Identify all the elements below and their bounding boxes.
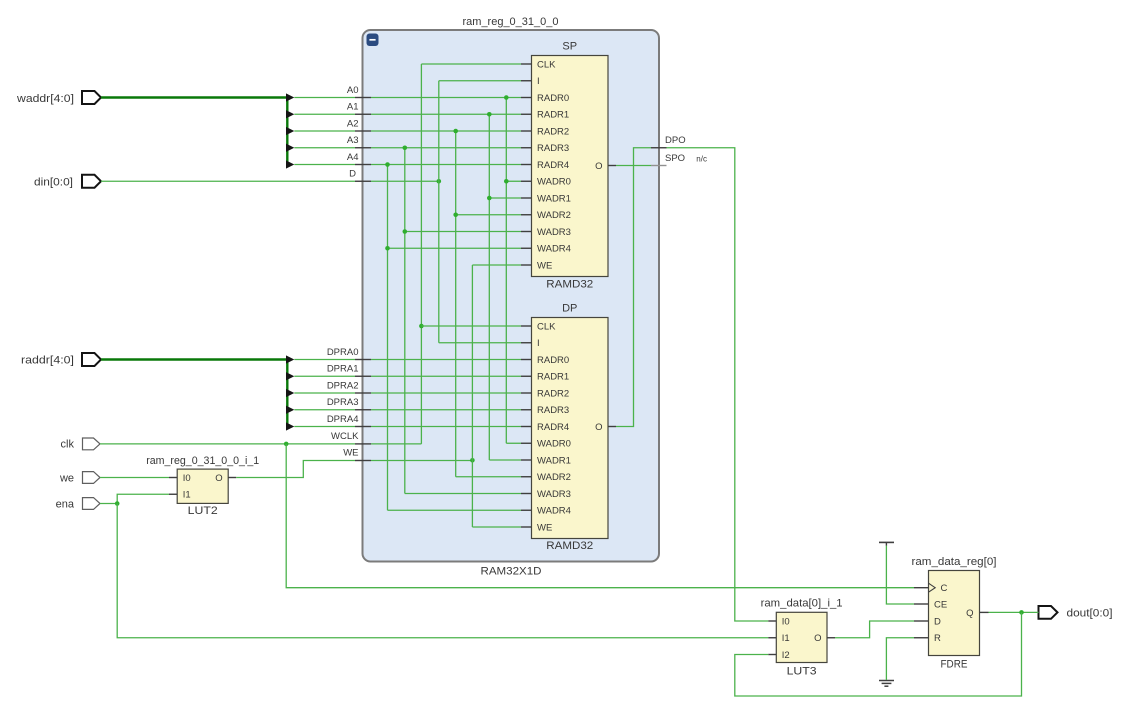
- DP pin RADR2 stub: [521, 392, 532, 394]
- wire Q to dout port: [989, 611, 1039, 613]
- SP pin O stub: [608, 165, 616, 167]
- svg-text:din[0:0]: din[0:0]: [34, 176, 73, 188]
- net A3 horizontal into RADR3: [371, 147, 521, 149]
- svg-text:D: D: [934, 616, 941, 627]
- pin label SPO: [665, 153, 685, 164]
- raddr bit DPRA4 arrowhead: [286, 422, 294, 430]
- svg-text:I0: I0: [183, 473, 191, 484]
- net D to SP I: [439, 80, 521, 82]
- svg-text:WADR3: WADR3: [537, 227, 571, 238]
- svg-text:WADR0: WADR0: [537, 439, 571, 450]
- input port din[0:0]: [34, 175, 101, 189]
- pin DPRA2 stub: [355, 392, 371, 394]
- SP pin RADR3 label: [537, 143, 569, 154]
- svg-text:WE: WE: [537, 260, 552, 271]
- wire LUT3 O to FDRE D: [835, 621, 914, 638]
- wire din[0:0] to container D pin: [101, 180, 355, 182]
- svg-text:I1: I1: [782, 633, 790, 644]
- pin label WE (container): [343, 448, 358, 459]
- bus raddr[4:0] trunk: [101, 360, 287, 427]
- junction A0 at SP RADR0: [504, 95, 509, 100]
- pin label DPRA2: [327, 380, 359, 391]
- DP pin WADR1 stub: [521, 459, 532, 461]
- pin A4 stub: [355, 164, 371, 166]
- LUT3 pin I1 stub: [768, 637, 776, 639]
- pin label D: [349, 169, 356, 180]
- svg-text:RADR1: RADR1: [537, 372, 569, 383]
- FDRE pin C label: [941, 583, 948, 594]
- SP pin RADR1 stub: [521, 113, 532, 115]
- net D vertical rail: [438, 81, 440, 343]
- junction A2 at SP WADR2: [453, 212, 458, 217]
- SP pin I label: [537, 76, 540, 87]
- input port raddr[4:0]: [21, 353, 101, 367]
- junction A0 at SP WADR0: [504, 179, 509, 184]
- junction A3 at SP WADR3: [403, 229, 408, 234]
- wire A2 to container: [294, 130, 355, 132]
- net A3 vertical rail: [404, 148, 406, 494]
- wire ena down to LUT3 I1: [117, 504, 768, 638]
- LUT3 pin O stub: [827, 637, 835, 639]
- LUT3 pin I0 label: [782, 616, 790, 627]
- SP pin WADR4 label: [537, 244, 571, 255]
- net D to DP I: [439, 342, 521, 344]
- LUT3 pin I2 label: [782, 650, 790, 661]
- svg-text:RADR2: RADR2: [537, 388, 569, 399]
- SP pin WADR4 stub: [521, 247, 532, 249]
- junction WCLK at DP CLK: [419, 324, 424, 329]
- DP pin CLK label: [537, 321, 556, 332]
- waddr bit A2 arrowhead: [286, 127, 294, 135]
- net A0 to DP WADR0: [506, 442, 521, 444]
- net A0 vertical rail: [505, 98, 507, 444]
- wire DPRA0 to container: [294, 359, 355, 361]
- DP pin RADR2 label: [537, 388, 569, 399]
- junction A3 at SP RADR3: [403, 145, 408, 150]
- SP pin RADR2 stub: [521, 130, 532, 132]
- net A4 horizontal into RADR4: [371, 164, 521, 166]
- LUT3 pin I2 stub: [768, 654, 776, 656]
- pin label DPRA3: [327, 397, 359, 408]
- svg-text:WE: WE: [537, 522, 552, 533]
- FDRE pin R label: [934, 633, 941, 644]
- net DPRA1 to DP RADR1: [371, 375, 521, 377]
- svg-text:D: D: [349, 169, 356, 180]
- pin label A1: [347, 102, 359, 113]
- junction A4 at SP RADR4: [385, 162, 390, 167]
- wire we to LUT2 I0: [100, 477, 169, 479]
- net WCLK to DP CLK: [421, 325, 521, 327]
- svg-text:WADR1: WADR1: [537, 455, 571, 466]
- wire A1 to container: [294, 113, 355, 115]
- net A4 vertical rail: [387, 165, 389, 511]
- junction Q: [1019, 610, 1024, 615]
- wire A3 to container: [294, 147, 355, 149]
- SP pin WADR2 label: [537, 210, 571, 221]
- svg-text:ram_reg_0_31_0_0: ram_reg_0_31_0_0: [463, 16, 559, 28]
- net A0 to SP WADR0: [506, 180, 521, 182]
- wire clk down to FDRE C: [286, 444, 914, 588]
- DP pin WADR4 label: [537, 506, 571, 517]
- net A3 to DP WADR3: [405, 493, 521, 495]
- raddr bit DPRA0 arrowhead: [286, 355, 294, 363]
- LUT3 type label: [787, 666, 817, 678]
- svg-text:RAM32X1D: RAM32X1D: [481, 566, 542, 578]
- svg-text:DPRA3: DPRA3: [327, 397, 359, 408]
- DP pin WE stub: [521, 526, 532, 528]
- net A4 to SP WADR4: [388, 247, 522, 249]
- pin label A3: [347, 135, 359, 146]
- svg-text:RADR0: RADR0: [537, 93, 569, 104]
- container title ram_reg_0_31_0_0: [463, 16, 559, 28]
- svg-text:O: O: [215, 473, 222, 484]
- wire A0 to container: [294, 97, 355, 99]
- SP pin WADR1 label: [537, 193, 571, 204]
- pin DPRA4 stub: [355, 426, 371, 428]
- svg-text:RADR3: RADR3: [537, 143, 569, 154]
- svg-text:we: we: [59, 473, 74, 485]
- svg-text:DPRA1: DPRA1: [327, 364, 359, 375]
- DP pin WADR1 label: [537, 455, 571, 466]
- svg-text:WADR2: WADR2: [537, 472, 571, 483]
- DP pin I stub: [521, 342, 532, 344]
- wire DPRA1 to container: [294, 375, 355, 377]
- DP pin WADR2 label: [537, 472, 571, 483]
- pin label A0: [347, 85, 359, 96]
- input port we: [59, 472, 100, 485]
- svg-text:WADR4: WADR4: [537, 244, 571, 255]
- SP pin RADR0 label: [537, 93, 569, 104]
- svg-text:WCLK: WCLK: [331, 431, 359, 442]
- wire Q feedback to LUT3 I2: [735, 612, 1022, 696]
- net A1 vertical rail: [488, 114, 490, 460]
- SP pin WADR1 stub: [521, 197, 532, 199]
- pin DPRA3 stub: [355, 409, 371, 411]
- FDRE instance label: [912, 556, 997, 568]
- svg-text:DPRA2: DPRA2: [327, 380, 359, 391]
- DP type label RAMD32: [546, 540, 593, 552]
- svg-text:SPO: SPO: [665, 153, 685, 164]
- DP pin WADR0 stub: [521, 442, 532, 444]
- net A1 horizontal into RADR1: [371, 113, 521, 115]
- ground symbol for R: [879, 681, 894, 687]
- LUT2 pin O stub: [228, 477, 236, 479]
- power symbol (VCC) for CE: [879, 542, 894, 545]
- net WE horizontal: [371, 460, 472, 462]
- svg-text:DPO: DPO: [665, 135, 686, 146]
- pin label A2: [347, 118, 359, 129]
- svg-text:WADR2: WADR2: [537, 210, 571, 221]
- FDRE pin C stub: [914, 587, 929, 589]
- svg-text:WADR3: WADR3: [537, 489, 571, 500]
- SP pin RADR0 stub: [521, 97, 532, 99]
- DP pin WADR4 stub: [521, 509, 532, 511]
- svg-text:Q: Q: [966, 608, 973, 619]
- FDRE pin CE label: [934, 599, 947, 610]
- svg-text:raddr[4:0]: raddr[4:0]: [21, 355, 74, 367]
- svg-text:I2: I2: [782, 650, 790, 661]
- svg-text:WE: WE: [343, 448, 358, 459]
- net WE to DP WE: [472, 526, 521, 528]
- net A2 horizontal into RADR2: [371, 130, 521, 132]
- label n/c: [696, 155, 707, 164]
- pin A3 stub: [355, 147, 371, 149]
- svg-text:RADR3: RADR3: [537, 405, 569, 416]
- net WCLK horizontal: [371, 443, 421, 445]
- svg-text:DPRA4: DPRA4: [327, 414, 359, 425]
- waddr bit A1 arrowhead: [286, 110, 294, 118]
- svg-text:RADR1: RADR1: [537, 110, 569, 121]
- pin A0 stub: [355, 97, 371, 99]
- wire clk to WCLK: [100, 443, 355, 445]
- svg-text:I: I: [537, 338, 540, 349]
- DP pin RADR3 label: [537, 405, 569, 416]
- LUT2 pin O label: [215, 473, 222, 484]
- pin D stub: [355, 180, 371, 182]
- DP pin WE label: [537, 522, 552, 533]
- DP pin RADR4 stub: [521, 426, 532, 428]
- net WE to SP WE: [472, 264, 521, 266]
- DP pin O label: [595, 422, 602, 433]
- waddr bit A4 arrowhead: [286, 160, 294, 168]
- svg-text:ram_data[0]_i_1: ram_data[0]_i_1: [761, 598, 843, 610]
- DP pin CLK stub: [521, 325, 532, 327]
- net A3 to SP WADR3: [405, 231, 521, 233]
- svg-text:O: O: [595, 161, 602, 172]
- net DPRA3 to DP RADR3: [371, 409, 521, 411]
- SP pin CLK label: [537, 59, 556, 70]
- net DPO from DP O: [616, 148, 651, 427]
- wire LUT2 O to container WE: [236, 461, 355, 478]
- svg-text:R: R: [934, 633, 941, 644]
- net DPRA4 to DP RADR4: [371, 426, 521, 428]
- junction A1 at SP RADR1: [487, 112, 492, 117]
- raddr bit DPRA2 arrowhead: [286, 389, 294, 397]
- LUT2 pin I0 stub: [169, 477, 177, 479]
- net DPRA0 to DP RADR0: [371, 359, 521, 361]
- FDRE ram_data_reg[0] body: [929, 571, 980, 656]
- pin WCLK stub: [355, 443, 371, 445]
- LUT3 pin I0 stub: [768, 620, 776, 622]
- pin DPRA1 stub: [355, 375, 371, 377]
- pin label DPO: [665, 135, 686, 146]
- input port ena: [56, 498, 100, 511]
- wire DPRA3 to container: [294, 409, 355, 411]
- hierarchical cell ram_reg_0_31_0_0 container (RAM32X1D): [363, 30, 660, 562]
- junction ena: [115, 501, 120, 506]
- pin label DPRA1: [327, 364, 359, 375]
- svg-text:O: O: [595, 422, 602, 433]
- svg-text:I0: I0: [782, 616, 790, 627]
- net DPRA2 to DP RADR2: [371, 392, 521, 394]
- net SPO from SP O: [616, 165, 651, 167]
- LUT2 pin I1 label: [183, 490, 191, 501]
- net A1 to DP WADR1: [489, 459, 521, 461]
- svg-text:RADR4: RADR4: [537, 160, 569, 171]
- FDRE pin Q stub: [980, 611, 989, 613]
- svg-text:RAMD32: RAMD32: [546, 279, 593, 291]
- wire DPRA4 to container: [294, 426, 355, 428]
- net A1 to SP WADR1: [489, 197, 521, 199]
- svg-text:RADR2: RADR2: [537, 126, 569, 137]
- bus waddr[4:0] trunk: [101, 98, 287, 165]
- LUT2 ram_reg_0_31_0_0_i_1 body: [177, 469, 228, 503]
- net A2 to DP WADR2: [456, 476, 521, 478]
- LUT2 pin I0 label: [183, 473, 191, 484]
- RAMD32 SP body: [532, 56, 609, 277]
- svg-text:WADR0: WADR0: [537, 177, 571, 188]
- svg-text:I: I: [537, 76, 540, 87]
- net D horizontal: [371, 180, 439, 182]
- svg-text:A3: A3: [347, 135, 359, 146]
- net A0 horizontal into RADR0: [371, 97, 521, 99]
- pin A1 stub: [355, 113, 371, 115]
- svg-text:O: O: [814, 633, 821, 644]
- net A2 to SP WADR2: [456, 214, 521, 216]
- svg-text:LUT2: LUT2: [188, 505, 218, 517]
- wire DPRA2 to container: [294, 392, 355, 394]
- DP pin RADR0 stub: [521, 359, 532, 361]
- net DPO to LUT3 I0: [667, 148, 769, 621]
- svg-text:RADR0: RADR0: [537, 355, 569, 366]
- DP pin RADR3 stub: [521, 409, 532, 411]
- FDRE pin R stub: [914, 637, 929, 639]
- svg-text:A1: A1: [347, 102, 359, 113]
- collapse button: [367, 34, 379, 47]
- svg-text:A2: A2: [347, 118, 359, 129]
- LUT2 type label: [188, 505, 218, 517]
- svg-text:CLK: CLK: [537, 59, 556, 70]
- net WCLK to SP CLK: [421, 63, 521, 65]
- junction clk fanout: [284, 442, 289, 447]
- output port dout[0:0]: [1039, 606, 1113, 620]
- SP pin WADR3 label: [537, 227, 571, 238]
- pin label DPRA4: [327, 414, 359, 425]
- SP pin RADR1 label: [537, 110, 569, 121]
- RAMD32 DP body: [532, 318, 609, 539]
- junction WE: [470, 458, 475, 463]
- net A2 vertical rail: [455, 131, 457, 477]
- SP title: [562, 41, 577, 53]
- svg-text:clk: clk: [61, 439, 75, 451]
- svg-text:A0: A0: [347, 85, 359, 96]
- svg-text:RAMD32: RAMD32: [546, 540, 593, 552]
- raddr bit DPRA3 arrowhead: [286, 406, 294, 414]
- svg-text:waddr[4:0]: waddr[4:0]: [16, 93, 74, 105]
- svg-text:DPRA0: DPRA0: [327, 347, 359, 358]
- FDRE pin Q label: [966, 608, 973, 619]
- svg-text:FDRE: FDRE: [941, 659, 968, 671]
- net A4 to DP WADR4: [388, 509, 522, 511]
- LUT2 instance label: [146, 455, 259, 467]
- svg-text:A4: A4: [347, 152, 359, 163]
- svg-text:RADR4: RADR4: [537, 422, 569, 433]
- DP pin I label: [537, 338, 540, 349]
- SP pin WADR0 stub: [521, 180, 532, 182]
- SP type label RAMD32: [546, 279, 593, 291]
- svg-text:n/c: n/c: [696, 155, 707, 164]
- LUT2 pin I1 stub: [169, 493, 177, 495]
- svg-text:SP: SP: [562, 41, 577, 53]
- input port waddr[4:0]: [16, 91, 101, 105]
- net WCLK vertical rail: [420, 64, 422, 444]
- FDRE clock chevron: [929, 583, 936, 592]
- svg-text:WADR1: WADR1: [537, 193, 571, 204]
- wire ground to FDRE R: [886, 638, 914, 680]
- waddr bit A3 arrowhead: [286, 144, 294, 152]
- svg-text:LUT3: LUT3: [787, 666, 817, 678]
- DP pin WADR3 label: [537, 489, 571, 500]
- junction D: [437, 179, 442, 184]
- pin A2 stub: [355, 130, 371, 132]
- DP pin O stub: [608, 426, 616, 428]
- svg-text:CLK: CLK: [537, 321, 556, 332]
- SP pin CLK stub: [521, 63, 532, 65]
- LUT3 ram_data[0]_i_1 body: [776, 612, 827, 662]
- wire ena to LUT2 I1: [100, 494, 169, 503]
- svg-text:ram_reg_0_31_0_0_i_1: ram_reg_0_31_0_0_i_1: [146, 455, 259, 467]
- svg-text:ram_data_reg[0]: ram_data_reg[0]: [912, 556, 997, 568]
- SP pin I stub: [521, 80, 532, 82]
- DP pin WADR3 stub: [521, 493, 532, 495]
- svg-text:C: C: [941, 583, 948, 594]
- pin DPO stub: [651, 147, 667, 149]
- SP pin WADR2 stub: [521, 214, 532, 216]
- wire VCC to FDRE CE: [886, 546, 914, 604]
- LUT3 pin O label: [814, 633, 821, 644]
- FDRE type label: [941, 659, 968, 671]
- input port clk: [61, 438, 100, 451]
- SP pin RADR3 stub: [521, 147, 532, 149]
- DP pin WADR2 stub: [521, 476, 532, 478]
- pin SPO stub: [651, 165, 667, 167]
- LUT3 instance label: [761, 598, 843, 610]
- FDRE pin D label: [934, 616, 941, 627]
- wire A4 to container: [294, 164, 355, 166]
- raddr bit DPRA1 arrowhead: [286, 372, 294, 380]
- SP pin WADR0 label: [537, 177, 571, 188]
- net WE vertical rail: [471, 265, 473, 527]
- junction A4 at SP WADR4: [385, 246, 390, 251]
- SP pin RADR2 label: [537, 126, 569, 137]
- DP pin RADR4 label: [537, 422, 569, 433]
- DP pin WADR0 label: [537, 439, 571, 450]
- junction A2 at SP RADR2: [453, 129, 458, 134]
- DP title: [562, 303, 577, 315]
- SP pin WE stub: [521, 264, 532, 266]
- pin label DPRA0: [327, 347, 359, 358]
- SP pin WE label: [537, 260, 552, 271]
- pin label A4: [347, 152, 359, 163]
- SP pin O label: [595, 161, 602, 172]
- svg-text:dout[0:0]: dout[0:0]: [1067, 608, 1113, 620]
- svg-text:I1: I1: [183, 490, 191, 501]
- pin DPRA0 stub: [355, 359, 371, 361]
- DP pin RADR1 stub: [521, 375, 532, 377]
- svg-text:CE: CE: [934, 599, 947, 610]
- svg-text:DP: DP: [562, 303, 577, 315]
- DP pin RADR0 label: [537, 355, 569, 366]
- LUT3 pin I1 label: [782, 633, 790, 644]
- SP pin RADR4 label: [537, 160, 569, 171]
- SP pin WADR3 stub: [521, 231, 532, 233]
- DP pin RADR1 label: [537, 372, 569, 383]
- container type label RAM32X1D: [481, 566, 542, 578]
- pin label WCLK: [331, 431, 359, 442]
- SP pin RADR4 stub: [521, 164, 532, 166]
- svg-text:WADR4: WADR4: [537, 506, 571, 517]
- waddr bit A0 arrowhead: [286, 93, 294, 101]
